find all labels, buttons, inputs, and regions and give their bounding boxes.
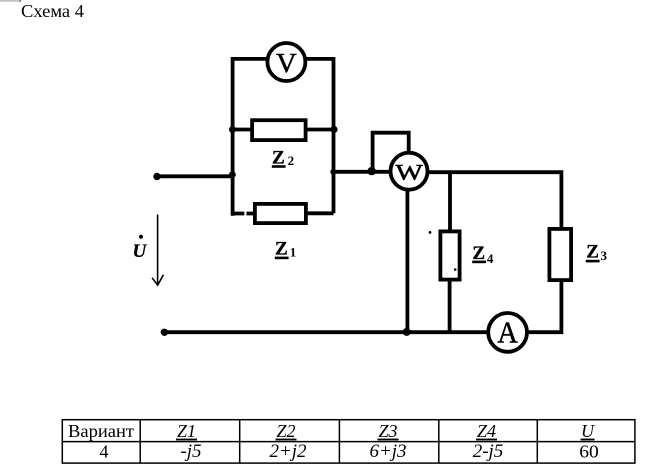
svg-text:60: 60 [579, 441, 599, 461]
wire: Z1 branch right lead [307, 211, 334, 215]
svg-text:W: W [395, 160, 423, 185]
svg-text:Z: Z [586, 242, 599, 263]
wire: Z2 branch horizontal [231, 128, 336, 132]
svg-text:-j5: -j5 [180, 441, 201, 462]
stray scan dot near Z4 top [429, 231, 432, 234]
node: junction dot wattmeter lead / bottom rail [403, 328, 411, 336]
svg-text:Z2: Z2 [276, 421, 295, 441]
svg-text:4: 4 [487, 251, 494, 266]
node: junction dot left rail / middle wire [229, 171, 236, 178]
arrow: source voltage direction [152, 215, 163, 286]
svg-text:U: U [581, 421, 595, 441]
label Z3 [586, 242, 608, 264]
wire: wattmeter voltage-coil loop above W [373, 133, 409, 171]
wire: middle right from right rail to wattmeter [334, 170, 393, 174]
svg-text:6+j3: 6+j3 [369, 441, 406, 462]
stray scan dot inside Z4 [454, 268, 457, 271]
wire: Z4 top lead [448, 172, 452, 231]
table header: U [581, 421, 596, 441]
resistor Z3 (box) [549, 229, 571, 280]
svg-text:1: 1 [290, 244, 297, 259]
table header: Z1 [176, 421, 197, 441]
node: source top terminal dot [153, 173, 160, 180]
svg-text:4: 4 [100, 441, 109, 461]
resistor Z1 (box) [255, 204, 306, 223]
wire: wattmeter current-coil bottom lead [405, 191, 409, 332]
svg-text:U: U [133, 241, 148, 262]
wire: parallel-block left rail and top branch and right rail [233, 59, 334, 216]
wire: Z1 branch left lead (with scan gap) [233, 212, 253, 216]
svg-text:V: V [276, 48, 297, 78]
svg-text:Z4: Z4 [477, 421, 496, 441]
wire: from wattmeter output to Z3 top lead [428, 172, 561, 228]
resistor Z2 (box) [252, 120, 306, 140]
label Z2 [272, 148, 294, 169]
wire: middle left from source top terminal to left rail [157, 174, 233, 178]
table header: Z4 [476, 421, 497, 441]
label Z1 [275, 239, 296, 260]
svg-text:2: 2 [288, 153, 295, 168]
svg-text:2-j5: 2-j5 [473, 441, 504, 462]
wattmeter W [391, 153, 428, 190]
svg-text:3: 3 [601, 248, 608, 263]
svg-text:Вариант: Вариант [68, 421, 134, 441]
node: junction dot at wattmeter input [367, 167, 375, 175]
wire: bottom rail from source bottom terminal to Z3 bottom lead [164, 280, 561, 332]
svg-text:Z3: Z3 [378, 421, 397, 441]
svg-text:A: A [497, 315, 518, 350]
table header: Z3 [378, 421, 399, 441]
node: source bottom terminal dot [161, 329, 168, 336]
voltmeter V [267, 43, 305, 81]
svg-text:2+j2: 2+j2 [269, 441, 307, 462]
node: junction dot right rail / middle wire [330, 169, 336, 175]
label Z4 [472, 243, 494, 266]
node: junction dot right rail / Z2 branch [330, 126, 337, 133]
scan artifact top-left grey mark [0, 0, 21, 2]
label U (source voltage, dotted U) [133, 235, 148, 262]
ammeter A [488, 313, 527, 352]
table header: Z2 [276, 421, 297, 441]
table grid [62, 420, 635, 463]
svg-text:Схема 4: Схема 4 [21, 1, 84, 21]
svg-text:Z1: Z1 [177, 421, 196, 441]
node: junction dot left rail / Z2 branch [229, 126, 236, 133]
svg-text:Z: Z [275, 239, 288, 260]
wire: Z4 bottom lead [448, 280, 452, 332]
resistor Z4 (box) [440, 231, 459, 279]
